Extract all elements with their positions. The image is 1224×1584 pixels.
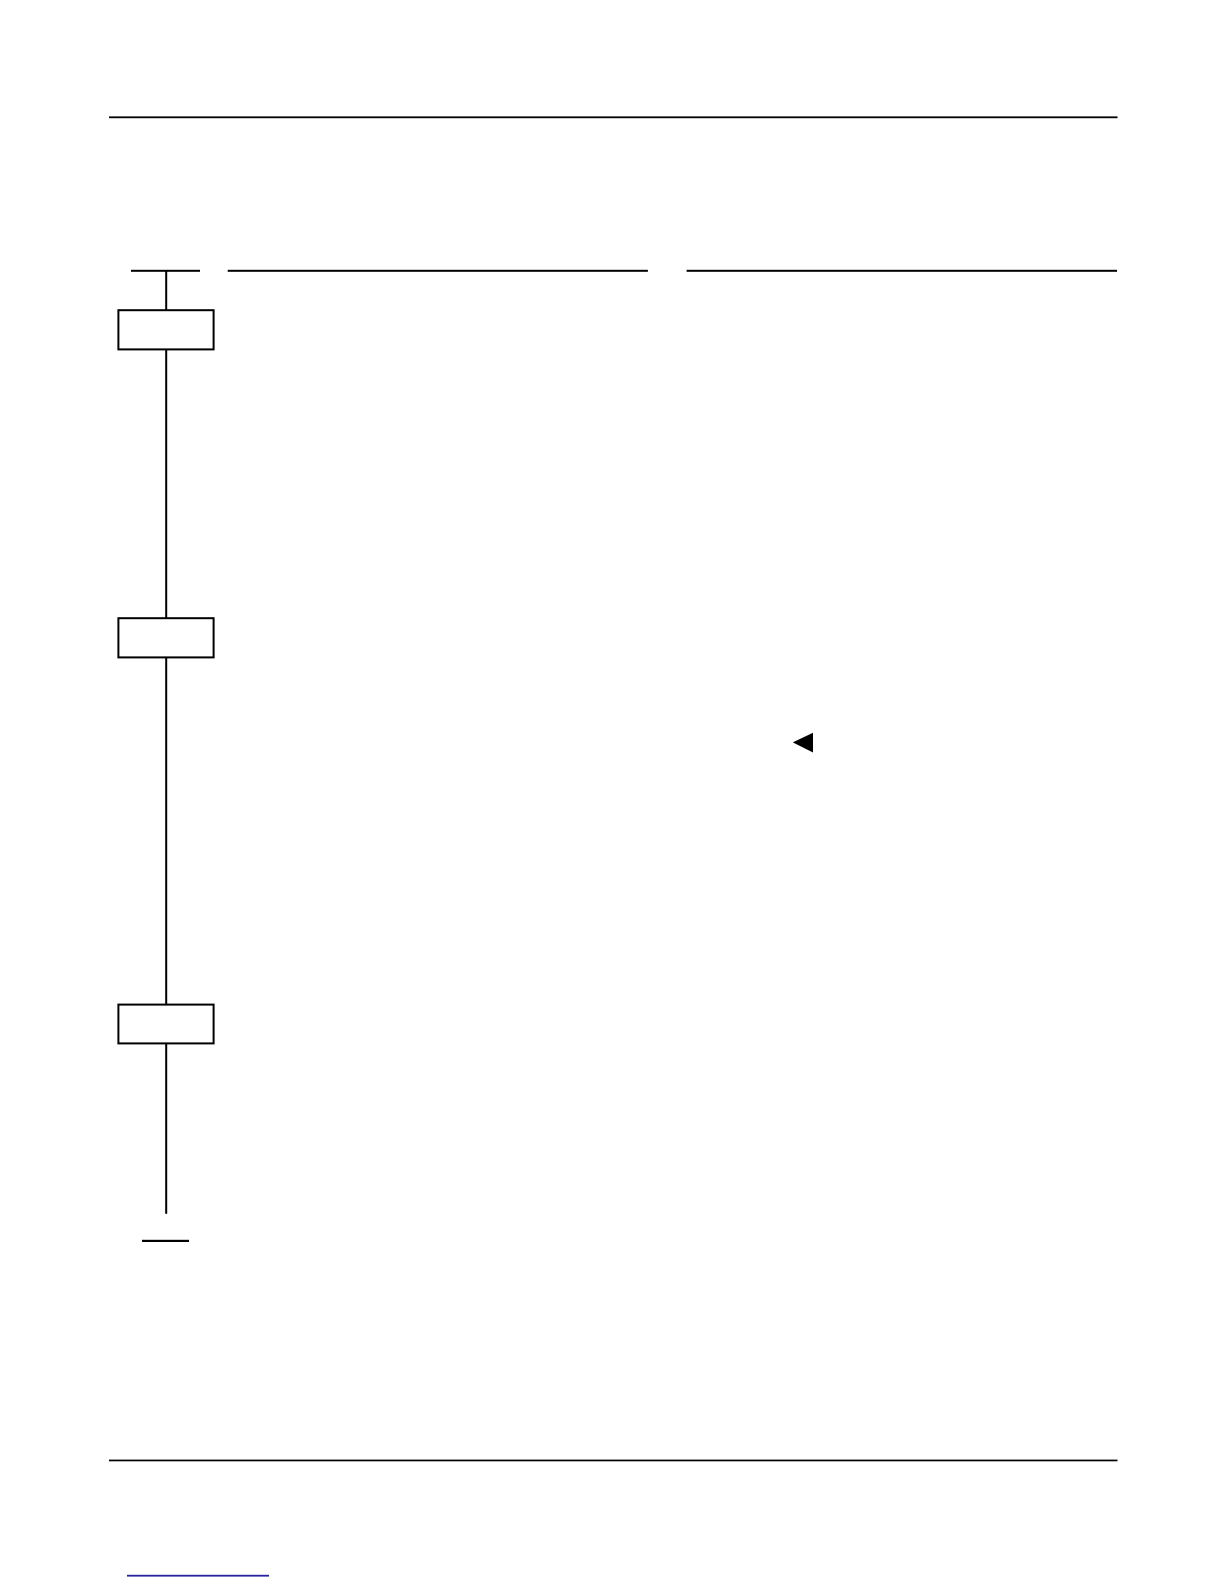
column heading underline left xyxy=(228,270,648,272)
flowchart step box 2 xyxy=(118,618,213,657)
column heading underline right xyxy=(687,270,1117,272)
flowchart step box 3 xyxy=(118,1005,213,1044)
terminator underline xyxy=(142,1240,189,1242)
flowchart step box 1 xyxy=(118,310,213,349)
flow entry bar xyxy=(131,270,200,272)
arrowhead xyxy=(793,733,813,753)
hyperlink underline xyxy=(127,1575,269,1577)
header rule xyxy=(109,116,1118,118)
wire xyxy=(165,270,167,1214)
footer rule xyxy=(109,1460,1118,1462)
